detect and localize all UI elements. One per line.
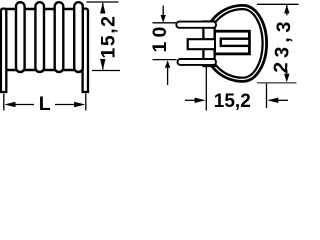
extension line bottom of diameter 23,3: [257, 82, 297, 84]
dimension line lower stub of height 15,2: [102, 59, 104, 70]
svg-text:23,3: 23,3: [270, 16, 296, 73]
dimension line upper stub of height 15,2: [102, 3, 104, 14]
bobbin hub outline: [215, 31, 250, 54]
pin 1 top: [176, 22, 216, 28]
dimension line right segment of length L: [55, 104, 76, 106]
right flange leg: [83, 9, 88, 92]
extension line right of width 15,2: [266, 84, 268, 108]
dimension line left segment of length L: [14, 104, 34, 106]
arrowhead left of length L: [4, 102, 15, 107]
extension line bottom of height 15,2: [92, 70, 120, 72]
pin 2 middle: [188, 39, 214, 49]
coil body inner ring (front view): [208, 9, 263, 78]
arrowhead up of diameter 23,3: [284, 5, 289, 14]
extension line right of length L: [85, 94, 87, 111]
svg-text:L: L: [39, 93, 51, 115]
winding turn 2: [35, 2, 44, 72]
arrowhead up of pin spacing 10: [165, 60, 170, 68]
coil core bottom edge (side view): [3, 69, 86, 71]
dimension line lower stub of diameter 23,3: [286, 70, 288, 79]
arrowhead down of diameter 23,3: [284, 74, 289, 82]
dimension line lower shaft of pin spacing 10: [167, 67, 169, 85]
arrowhead right of length L: [74, 102, 85, 107]
arrowhead down of height 15,2: [100, 59, 105, 70]
flange plate edge-on: [203, 22, 214, 67]
dimension line upper stub of diameter 23,3: [286, 5, 288, 15]
pin 3 bottom: [178, 59, 217, 65]
extension line left of length L: [3, 94, 5, 111]
winding turn 1: [16, 2, 25, 72]
extension line top of diameter 23,3: [257, 3, 299, 5]
extension line top of pin spacing 10: [153, 22, 177, 24]
svg-text:15,2: 15,2: [214, 91, 251, 112]
svg-text:15,2: 15,2: [98, 15, 120, 59]
dimension line left shaft of width 15,2: [185, 99, 195, 101]
arrowhead left of width 15,2: [267, 98, 278, 103]
dimension line right shaft of width 15,2: [278, 99, 289, 101]
extension line top of height 15,2: [87, 1, 119, 3]
extension line bottom of pin spacing 10: [153, 59, 177, 61]
extension line left of width 15,2: [205, 66, 207, 111]
arrowhead up of height 15,2: [100, 2, 105, 13]
dimension line upper shaft of pin spacing 10: [162, 6, 164, 17]
winding turn 3: [55, 2, 64, 72]
bobbin hub slot tongue: [221, 39, 250, 46]
winding turn 4: [74, 2, 83, 72]
coil body outer ring (front view): [204, 5, 267, 81]
coil core top edge (side view): [3, 8, 86, 10]
arrowhead down of pin spacing 10: [161, 15, 166, 23]
svg-text:10: 10: [149, 22, 171, 52]
arrowhead right of width 15,2: [195, 98, 206, 103]
left flange leg: [1, 9, 6, 92]
